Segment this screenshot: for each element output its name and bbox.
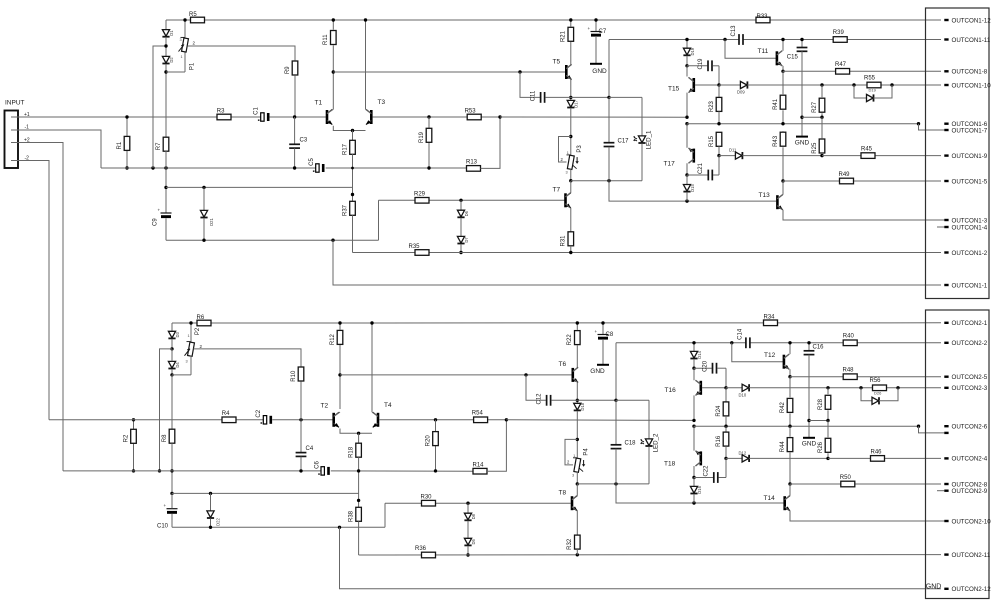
T13 collector link [777, 195, 782, 199]
svg-text:D19: D19 [869, 88, 877, 93]
resistor R32 [575, 535, 581, 549]
svg-text:R42: R42 [780, 401, 786, 413]
svg-text:D18: D18 [580, 402, 585, 410]
junction D19 node [685, 38, 688, 41]
capacitor C8 [602, 323, 604, 335]
wire to OUTCON2-12 [340, 527, 942, 589]
junction D2 bottom [164, 70, 167, 73]
transistor T1 emitter link [333, 126, 365, 131]
wire OUTCON2-3 rail [861, 387, 941, 389]
resistor R11 [332, 20, 334, 30]
svg-text:R14: R14 [473, 463, 485, 469]
junction R11 top [332, 18, 335, 21]
svg-text:3: 3 [566, 171, 568, 175]
svg-text:D6: D6 [464, 210, 469, 216]
resistor R9 [292, 61, 298, 75]
LED LED_2 [648, 400, 650, 439]
diode D11 [719, 155, 735, 157]
junction T4 collector rail [370, 321, 373, 324]
diode D10 [726, 387, 742, 389]
pin OUTCON2-12 [944, 588, 948, 590]
junction R27 top [820, 83, 823, 86]
T7 collector link [566, 193, 571, 197]
wire feedback riser ch2 [384, 503, 386, 527]
junction T5 base [518, 70, 521, 73]
diode D09 [719, 84, 740, 86]
capacitor C2 [263, 416, 266, 424]
junction T3 collector rail [364, 18, 367, 21]
junction bias tap ch2 [158, 469, 161, 472]
svg-text:R24: R24 [716, 405, 722, 417]
junction R28 bottom [826, 419, 829, 422]
T15 emitter link [689, 88, 694, 92]
junction OUTCON1-7 branch [917, 122, 920, 125]
junction C11 node [569, 96, 572, 99]
transistor T5 collector link [566, 65, 571, 69]
junction T17 base [717, 154, 720, 157]
wire T4 base node [379, 419, 506, 421]
resistor R38 [356, 507, 362, 521]
svg-text:R54: R54 [472, 410, 484, 416]
svg-text:LED_2: LED_2 [653, 433, 660, 452]
junction OUTCON1-1 branch [331, 239, 334, 242]
junction C7 top [594, 18, 597, 21]
pin OUTCON1-6 [944, 123, 948, 125]
diode D5 [464, 538, 471, 545]
junction R26 bottom [826, 457, 829, 460]
svg-text:C5: C5 [309, 158, 315, 166]
junction return ch2 [209, 526, 212, 529]
svg-text:C21: C21 [698, 162, 704, 174]
svg-text:R8: R8 [162, 434, 168, 442]
T18 emitter link [693, 426, 695, 450]
pin OUTCON1-3 [944, 219, 948, 221]
svg-text:1: 1 [567, 151, 569, 155]
junction R23 top [717, 83, 720, 86]
junction OUTCON2-12 branch [338, 526, 341, 529]
T17 collector link [689, 159, 694, 163]
resistor R36 [422, 552, 436, 558]
junction R41 R43 [781, 122, 784, 125]
junction C17 top [607, 96, 610, 99]
svg-text:C4: C4 [306, 446, 314, 452]
transistor T3 collector link [366, 109, 372, 113]
svg-text:C3: C3 [300, 138, 308, 144]
resistor R37 [350, 201, 356, 215]
wire bias node to C17 [571, 180, 642, 182]
pin OUTCON2-9 [944, 490, 948, 492]
resistor R39 [833, 37, 847, 43]
svg-text:R9: R9 [285, 66, 291, 74]
svg-text:D10: D10 [739, 392, 747, 397]
wire input -2 vertical [11, 161, 49, 420]
svg-text:D1: D1 [169, 30, 174, 36]
pin OUTCON1-9 [944, 154, 948, 156]
junction P1 top [183, 18, 186, 21]
T17 emitter link [686, 124, 688, 148]
svg-text:R19: R19 [419, 131, 425, 143]
svg-text:C8: C8 [606, 332, 614, 338]
connector OUTCON2 box [926, 310, 990, 599]
T11 collector link [777, 51, 782, 55]
resistor R54 [474, 417, 488, 423]
junction T14 collector node [788, 482, 791, 485]
svg-text:OUTCON2-6: OUTCON2-6 [952, 424, 988, 431]
trimmer P2 [190, 323, 192, 343]
junction R42 R44 [788, 425, 791, 428]
wire OUTCON2-5 rail [790, 376, 941, 378]
svg-text:T6: T6 [559, 361, 567, 368]
wire T3 base node [373, 116, 501, 118]
resistor R4 [222, 417, 236, 423]
diode D8 [467, 503, 469, 513]
junction D7 bottom [459, 251, 462, 254]
pin OUTCON2-10 [944, 520, 948, 522]
svg-text:R41: R41 [773, 98, 779, 110]
wire T6 base tap [526, 374, 572, 376]
junction R20 bottom [434, 469, 437, 472]
resistor R42 [789, 377, 791, 398]
resistor R44 [789, 426, 791, 437]
wire top rail ch1 [166, 19, 941, 21]
capacitor C15 [801, 40, 803, 48]
svg-text:OUTCON2-1: OUTCON2-1 [952, 320, 988, 327]
svg-text:R11: R11 [323, 34, 329, 45]
wire LED_1 branch top [609, 96, 642, 98]
svg-text:R31: R31 [561, 235, 567, 247]
junction C18 bottom [614, 482, 617, 485]
svg-text:R27: R27 [812, 101, 818, 113]
junction R2 top [132, 418, 135, 421]
resistor R31 [568, 232, 574, 246]
T16 emitter link [696, 391, 701, 395]
pin OUTCON1-2 [944, 251, 948, 253]
junction D6 top [459, 199, 462, 202]
svg-text:T4: T4 [384, 402, 392, 409]
T12 emitter link [784, 365, 789, 369]
resistor R14 [473, 468, 487, 474]
svg-text:2: 2 [193, 40, 196, 45]
vertical C18 top feed [615, 343, 617, 401]
capacitor C3 [294, 117, 296, 144]
wire signal rail ch2 [49, 419, 264, 421]
svg-text:D8: D8 [471, 513, 476, 519]
svg-text:D2: D2 [169, 57, 174, 63]
wire input +1 to C1 [11, 116, 262, 118]
diode D1 [162, 30, 169, 37]
wire OUTCON1-5 rail [783, 180, 941, 182]
wire C9 D21 link [166, 186, 353, 188]
junction D15 bottom [685, 199, 688, 202]
capacitor C7 [595, 20, 597, 32]
capacitor C4 [300, 420, 302, 453]
wire fb to R29 [379, 199, 565, 201]
junction C20 node [692, 367, 695, 370]
wire gnd link ch2 [809, 420, 828, 422]
junction R32 bottom [576, 553, 579, 556]
junction bias tap [151, 166, 154, 169]
junction R28 top [826, 386, 829, 389]
svg-text:R18: R18 [348, 446, 354, 458]
junction T11 collector [781, 38, 784, 41]
junction C10 top [170, 492, 173, 495]
svg-text:R53: R53 [465, 109, 477, 115]
resistor R53 [467, 114, 481, 120]
svg-text:C1: C1 [254, 107, 260, 115]
svg-text:+: + [588, 26, 591, 31]
svg-text:R45: R45 [861, 147, 873, 153]
wire R55 diode loop [854, 85, 867, 98]
svg-text:T3: T3 [378, 99, 386, 106]
pin OUTCON1-10 [944, 84, 948, 86]
diode D2 [162, 56, 169, 63]
wire to T13 base [609, 181, 776, 201]
junction T18 base [724, 457, 727, 460]
svg-text:R17: R17 [342, 143, 348, 155]
vertical C17 top feed [608, 40, 610, 98]
junction R18 rail [357, 469, 360, 472]
T8 emitter link [572, 507, 577, 511]
wire to OUTCON1-1 [333, 240, 941, 285]
junction T5 base rail [332, 70, 335, 73]
resistor R5 [191, 17, 205, 23]
svg-text:R43: R43 [773, 135, 779, 147]
junction R17 column rail [351, 167, 354, 170]
wire T12 base [732, 343, 783, 362]
T12 collector link [784, 354, 789, 358]
svg-text:T18: T18 [664, 461, 676, 468]
svg-text:R26: R26 [818, 441, 824, 453]
transistor T1 collector link [327, 109, 333, 113]
svg-text:D16: D16 [697, 485, 702, 493]
svg-text:R40: R40 [843, 334, 855, 340]
resistor R33 [756, 17, 770, 23]
svg-text:3: 3 [180, 38, 182, 42]
wire fb to R30 [385, 502, 571, 504]
transistor T4 collector link [372, 412, 378, 416]
resistor R43 [780, 132, 786, 146]
svg-text:GND: GND [802, 441, 817, 448]
pin OUTCON2-1 [944, 322, 948, 324]
svg-text:R13: R13 [466, 160, 478, 166]
junction R9 C3 [293, 115, 296, 118]
svg-text:2: 2 [561, 157, 564, 162]
svg-text:OUTCON1-11: OUTCON1-11 [952, 37, 991, 44]
pin OUTCON1-4 [944, 226, 948, 228]
svg-text:OUTCON1-10: OUTCON1-10 [952, 82, 992, 89]
resistor R15 [716, 132, 722, 146]
svg-text:D09: D09 [737, 90, 745, 95]
svg-text:OUTCON2-5: OUTCON2-5 [952, 374, 988, 381]
diode D18 [574, 403, 581, 410]
wire OUTCON2-4 rail [828, 457, 941, 459]
svg-text:2: 2 [567, 460, 570, 465]
diode D21 [203, 187, 205, 210]
svg-text:R28: R28 [818, 398, 824, 410]
wire input -1 [11, 130, 101, 168]
junction C13 corner [723, 38, 726, 41]
diode D20 bypass [872, 397, 879, 404]
svg-text:C10: C10 [157, 524, 169, 530]
junction R38 top [357, 499, 360, 502]
junction R24 R16 [724, 425, 727, 428]
capacitor C21 [687, 174, 708, 176]
junction R20 top [434, 418, 437, 421]
junction R23 R15 [717, 122, 720, 125]
junction R56 right [896, 386, 899, 389]
wire C19 down [718, 66, 720, 85]
svg-text:OUTCON1-9: OUTCON1-9 [952, 153, 988, 160]
resistor R18 [358, 433, 360, 443]
LED LED_1 [641, 97, 643, 135]
diode D14 [693, 343, 695, 352]
diode D7 [457, 236, 464, 243]
junction D3-D4 [170, 347, 173, 350]
svg-text:R36: R36 [415, 546, 427, 552]
wire R13 up link [481, 117, 501, 168]
resistor R2 [133, 420, 135, 471]
pin OUTCON2-11 [944, 553, 948, 555]
svg-text:T8: T8 [559, 490, 567, 497]
junction C16 top [807, 341, 810, 344]
wire C14 to T12 [750, 342, 941, 344]
junction R19 bottom [427, 166, 430, 169]
svg-text:C17: C17 [618, 138, 630, 144]
svg-text:T15: T15 [668, 86, 680, 93]
wire feedback riser [378, 200, 380, 240]
svg-text:T5: T5 [553, 59, 561, 66]
junction R1 bottom [125, 166, 128, 169]
svg-text:R44: R44 [780, 441, 786, 453]
junction R24 top [724, 386, 727, 389]
capacitor C20 [694, 367, 712, 369]
svg-text:C20: C20 [702, 360, 708, 372]
svg-text:D4: D4 [175, 362, 180, 368]
wire OUTCON1-8 rail [783, 70, 941, 72]
capacitor C16 [808, 343, 810, 351]
svg-text:C2: C2 [256, 409, 262, 417]
resistor R22 [576, 323, 578, 330]
resistor R35 [415, 250, 429, 256]
svg-text:D14: D14 [697, 350, 702, 358]
junction R27 bottom [820, 116, 823, 119]
svg-text:R3: R3 [217, 108, 225, 114]
svg-text:C18: C18 [625, 440, 637, 446]
svg-text:R25: R25 [812, 142, 818, 154]
svg-text:R22: R22 [567, 334, 573, 346]
junction R37 top [351, 193, 354, 196]
svg-text:1: 1 [188, 334, 190, 338]
svg-text:R46: R46 [871, 449, 883, 455]
wire gnd link [802, 116, 822, 118]
svg-text:2: 2 [200, 344, 203, 349]
svg-text:C6: C6 [314, 461, 320, 469]
pin OUTCON1-12 [944, 19, 948, 21]
wire OUTCON1-10 rail [854, 84, 941, 86]
wire C10 D22 link [172, 492, 359, 494]
svg-text:D17: D17 [574, 99, 579, 107]
transistor T2 collector link [334, 412, 340, 416]
pin OUTCON2-8 [944, 483, 948, 485]
junction R22 top [576, 321, 579, 324]
resistor R49 [840, 178, 854, 184]
junction C12 node [576, 399, 579, 402]
wire P3 wiper loop [559, 137, 571, 163]
resistor R28 [827, 388, 829, 395]
T15 collector link [686, 66, 688, 77]
junction R1 top [125, 115, 128, 118]
svg-text:OUTCON1-5: OUTCON1-5 [952, 178, 988, 185]
junction VAS feed end ch2 [692, 419, 695, 422]
junction T7 collector node [569, 179, 572, 182]
svg-text:R16: R16 [716, 435, 722, 447]
svg-text:R35: R35 [409, 244, 421, 250]
trimmer P3 [567, 155, 574, 169]
svg-text:OUTCON2-10: OUTCON2-10 [952, 518, 992, 525]
junction C14 corner [730, 341, 733, 344]
svg-text:C16: C16 [813, 345, 825, 351]
junction tail [351, 129, 354, 132]
connector OUTCON1 box [926, 8, 990, 299]
diode D12 [726, 457, 742, 459]
svg-text:C9: C9 [153, 218, 159, 226]
svg-text:C14: C14 [737, 328, 743, 340]
wire VAS feed [500, 116, 687, 118]
junction gnd link left [800, 116, 803, 119]
svg-text:P2: P2 [195, 327, 201, 335]
svg-text:OUTCON2-12: OUTCON2-12 [952, 586, 992, 593]
svg-text:P3: P3 [577, 145, 583, 153]
svg-text:R21: R21 [561, 30, 567, 42]
resistor R45 [861, 153, 875, 159]
transistor T6 collector link [573, 368, 578, 372]
svg-text:R1: R1 [117, 141, 123, 149]
svg-text:OUTCON2-11: OUTCON2-11 [952, 552, 991, 559]
pin OUTCON2-4 [944, 457, 948, 459]
stub OUTCON1-4 [937, 226, 944, 228]
resistor R17 [352, 131, 354, 141]
svg-text:+: + [158, 208, 161, 213]
capacitor C18 [615, 400, 617, 445]
diode D13 bypass [867, 94, 874, 101]
junction C18 top [614, 399, 617, 402]
wire T5 base tap [520, 71, 565, 73]
wire OUTCON1-6 rail [687, 123, 919, 125]
resistor R24 [725, 388, 727, 402]
junction C4 bottom [299, 469, 302, 472]
T18 collector link [696, 462, 701, 466]
resistor R21 [570, 20, 572, 27]
junction P2 top [189, 321, 192, 324]
wire OUTCON2-6 rail [694, 425, 919, 427]
svg-text:D7: D7 [464, 237, 469, 243]
svg-text:R47: R47 [835, 62, 847, 68]
svg-text:R20: R20 [425, 435, 431, 447]
resistor R47 [836, 69, 850, 75]
wire P1 wiper to R9 [188, 46, 296, 60]
capacitor C13 [738, 34, 740, 45]
junction R21 top [569, 18, 572, 21]
capacitor C14 [745, 337, 747, 348]
svg-text:P1: P1 [190, 62, 196, 70]
junction R14 R54 node [505, 418, 508, 421]
wire return rail ch1 [166, 239, 379, 241]
svg-text:T14: T14 [764, 495, 776, 502]
junction R8 rail [170, 469, 173, 472]
wire T15 base [695, 84, 719, 86]
junction return [202, 239, 205, 242]
svg-text:R34: R34 [764, 315, 776, 321]
